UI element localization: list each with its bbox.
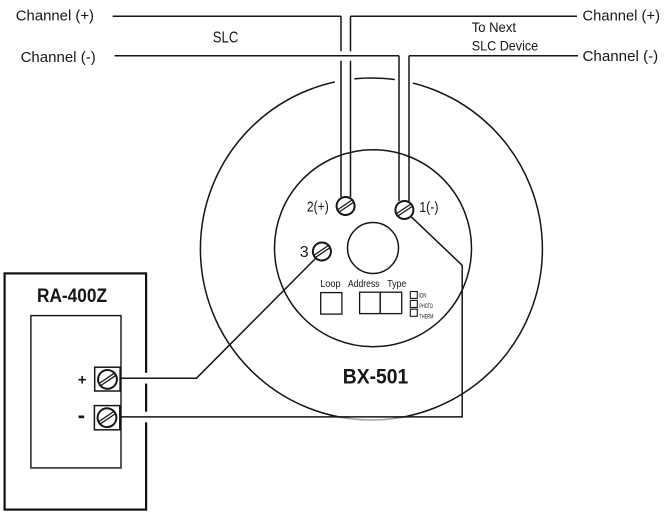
checkbox PHOTO: [410, 300, 417, 307]
mask: RA box edge break at minus wire: [143, 412, 148, 423]
RA terminal block minus: [94, 406, 119, 430]
terminal screw 3: [309, 239, 334, 264]
svg-text:PHOTO: PHOTO: [419, 304, 433, 310]
RA-400Z outer box: [5, 273, 147, 509]
svg-text:RA-400Z: RA-400Z: [37, 286, 107, 307]
wire: SLC(+) vertical pair left line down to terminal 2 (break at channel- crossing): [340, 16, 342, 51]
wire: SLC(-) vertical pair left line down to terminal 1: [398, 56, 400, 201]
svg-text:3: 3: [300, 244, 309, 261]
Address/Type divider: [379, 292, 381, 313]
wire: RA-400Z minus terminal to terminal 1(-): [120, 217, 463, 417]
checkbox ION: [410, 292, 417, 299]
wire: SLC(-) vertical pair right line down to terminal 1: [408, 56, 410, 201]
mask: outer circle arc break at SLC-in wire pair: [335, 73, 355, 89]
wire: SLC(+) vertical pair right line down to terminal 2 (break at channel- crossing): [350, 16, 352, 51]
Loop switch box: [321, 293, 342, 315]
wire: channel (-) horizontal to next device: [409, 55, 578, 57]
detector center hole circle: [348, 223, 399, 274]
detector inner circle: [275, 150, 472, 347]
svg-text:Channel (+): Channel (+): [583, 7, 661, 24]
svg-text:Type: Type: [387, 279, 406, 290]
terminal screw 1(-): [392, 198, 417, 223]
checkbox THERM: [410, 309, 417, 316]
svg-text:1(-): 1(-): [419, 199, 438, 216]
RA-400Z inner box: [31, 316, 121, 468]
wire: channel (-) horizontal from left: [115, 55, 400, 57]
svg-text:SLC Device: SLC Device: [472, 37, 539, 53]
svg-text:Channel (-): Channel (-): [583, 48, 659, 65]
terminal screw 2(+): [333, 194, 358, 219]
Address/Type switch box: [360, 292, 402, 313]
svg-text:Address: Address: [348, 279, 379, 290]
svg-text:THERM: THERM: [419, 315, 433, 321]
svg-text:To Next: To Next: [472, 19, 516, 35]
svg-text:Channel (-): Channel (-): [21, 49, 96, 66]
svg-text:ION: ION: [419, 294, 427, 300]
RA terminal screw plus: [94, 366, 120, 392]
detector base outer circle: [200, 78, 542, 420]
svg-text:+: +: [78, 371, 87, 388]
svg-text:Loop: Loop: [320, 279, 341, 290]
svg-text:Channel (+): Channel (+): [16, 8, 94, 25]
mask: RA box edge break at plus wire: [143, 373, 148, 384]
wire: channel (+) horizontal from left: [113, 15, 341, 17]
svg-text:BX-501: BX-501: [343, 365, 409, 389]
svg-text:2(+): 2(+): [307, 199, 329, 216]
wire: channel (+) horizontal to next device: [351, 15, 578, 17]
RA terminal block plus: [95, 367, 120, 391]
svg-text:SLC: SLC: [213, 29, 239, 46]
mask: fade outer circle arc below bottom wire: [334, 418, 410, 423]
mask: outer circle arc break at SLC-out wire pair: [395, 74, 413, 90]
label: -: [79, 416, 85, 419]
wire: RA-400Z plus terminal to terminal 3: [120, 258, 315, 378]
RA terminal screw minus: [94, 405, 120, 431]
